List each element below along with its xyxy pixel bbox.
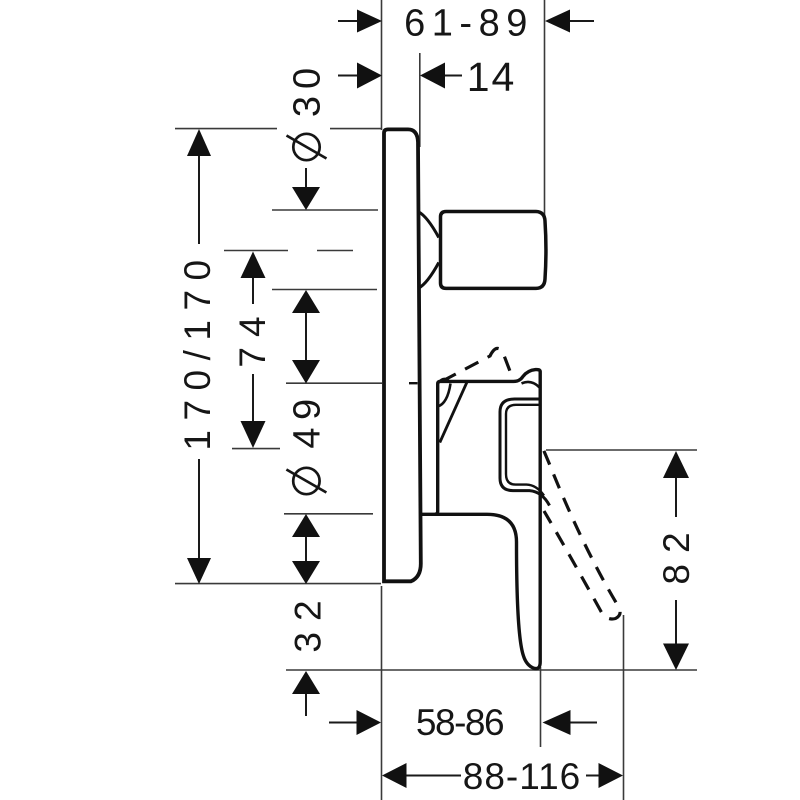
svg-text:58-86: 58-86 [416,702,503,743]
svg-text:88-116: 88-116 [463,756,581,797]
svg-text:49: 49 [287,391,329,448]
svg-text:14: 14 [467,54,517,100]
svg-text:82: 82 [656,521,697,584]
svg-text:74: 74 [232,306,273,367]
svg-text:61-89: 61-89 [404,3,534,45]
svg-text:30: 30 [287,61,329,117]
svg-text:170/170: 170/170 [177,250,218,450]
svg-text:32: 32 [288,589,329,652]
